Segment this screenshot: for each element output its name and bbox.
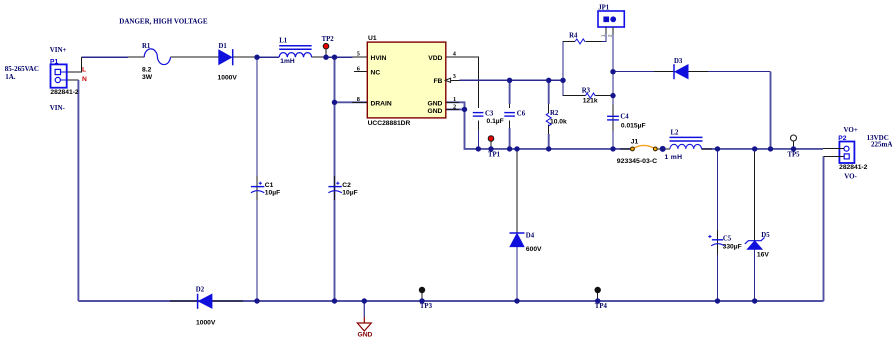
jumper J1 (631, 145, 658, 150)
svg-text:P2: P2 (838, 135, 846, 142)
wire P1 L pin corner (67, 57, 82, 72)
wire R3 left lead (563, 80, 586, 95)
capacitor C2 (328, 176, 341, 200)
IC U1 UCC28881DR body (367, 42, 446, 118)
svg-text:C2: C2 (342, 182, 351, 189)
wire top rail P1 to R1 (81, 56, 128, 58)
svg-text:C4: C4 (620, 114, 629, 121)
svg-text:GND: GND (428, 101, 443, 108)
svg-text:8: 8 (357, 96, 360, 103)
capacitor C3 (472, 108, 485, 121)
svg-text:2: 2 (453, 103, 456, 110)
svg-text:85-265VAC: 85-265VAC (5, 65, 39, 73)
wire L2 to P2 output rail (702, 148, 824, 150)
connector P2 (823, 142, 854, 164)
junction GND pins (462, 107, 467, 112)
svg-text:GND: GND (428, 108, 443, 115)
svg-text:225mA: 225mA (871, 140, 892, 148)
wire D1 to L1 (233, 56, 257, 58)
svg-text:VDD: VDD (428, 55, 442, 62)
wire U1 DRAIN pin 8 (335, 101, 368, 103)
wire R2 top lead (548, 80, 550, 104)
wire D2 left black stub (170, 300, 198, 302)
svg-text:D3: D3 (674, 58, 683, 65)
wire D3 anode from JP1 node (613, 71, 674, 73)
junction mid rail TP5 (791, 146, 796, 151)
pin FB arrow (445, 78, 450, 82)
svg-text:1000V: 1000V (218, 75, 238, 82)
diode D3 (674, 64, 688, 79)
wire FB rail up to R4 left lead (563, 41, 575, 80)
junction top rail C1 (254, 55, 259, 60)
svg-text:VIN-: VIN- (50, 104, 66, 112)
svg-text:D1: D1 (219, 43, 228, 50)
wire D3 cathode to output corner (688, 71, 771, 73)
svg-text:J1: J1 (631, 138, 639, 145)
svg-text:P1: P1 (50, 58, 58, 65)
wire R3 right lead (595, 95, 613, 97)
wire R1 left lead (128, 56, 144, 58)
junction bottom rail GND (362, 298, 367, 303)
svg-text:FB: FB (433, 78, 442, 85)
junction FB R2 (546, 78, 551, 83)
wire C4 lead black (612, 104, 614, 131)
svg-text:D2: D2 (196, 287, 205, 294)
wire U1 GND pin 1 (446, 102, 465, 109)
svg-text:1mH: 1mH (280, 58, 295, 65)
test point TP1 (488, 136, 494, 142)
junction TP2 (323, 55, 328, 60)
wire C4 bottom to mid rail (612, 131, 614, 149)
svg-text:330µF: 330µF (723, 244, 742, 251)
resistor R1 (144, 49, 170, 65)
wire N vertical to bottom rail (77, 80, 79, 301)
svg-text:C5: C5 (723, 235, 732, 242)
junction bottom rail TP3 (419, 298, 424, 303)
wire L2 right black stub (702, 148, 713, 150)
junction mid rail C5 (715, 146, 720, 151)
svg-text:6: 6 (357, 65, 360, 72)
wire DRAIN black stub (352, 101, 367, 103)
wire TP4 stem (597, 291, 599, 302)
svg-text:8.2: 8.2 (142, 66, 152, 73)
svg-text:D4: D4 (526, 232, 535, 239)
svg-text:10.0k: 10.0k (550, 118, 567, 125)
svg-text:1: 1 (453, 96, 456, 103)
diode D1 (219, 49, 233, 65)
test point TP3 (419, 287, 425, 293)
junction mid rail J1 L2 (660, 146, 666, 152)
svg-text:L1: L1 (279, 38, 288, 45)
resistor R2 (546, 113, 551, 126)
wire D4 branch vertical bottom (516, 247, 518, 301)
svg-text:C3: C3 (485, 110, 494, 117)
junction mid rail C6 (507, 146, 512, 151)
svg-text:3W: 3W (142, 74, 153, 81)
svg-text:N: N (82, 76, 87, 83)
svg-text:282841-2: 282841-2 (50, 89, 79, 96)
svg-text:VO-: VO- (844, 173, 857, 181)
wire R2 bottom lead black (548, 124, 550, 134)
svg-text:U1: U1 (368, 35, 377, 42)
ground (357, 323, 371, 331)
wire D3 left black stub (654, 71, 674, 73)
wire L2 left black stub (663, 148, 671, 150)
test point TP5 (791, 135, 797, 141)
wire GND2 black stub (446, 108, 459, 110)
svg-text:DRAIN: DRAIN (371, 101, 392, 108)
wire C6 vertical bottom (509, 128, 511, 149)
wire R4 right lead to JP1 pin 1 stem (586, 27, 606, 41)
svg-text:C1: C1 (265, 182, 274, 189)
svg-text:1 mH: 1 mH (665, 154, 683, 161)
capacitor C6 (504, 108, 517, 121)
capacitor C4 (607, 116, 619, 120)
svg-text:DANGER, HIGH VOLTAGE: DANGER, HIGH VOLTAGE (119, 17, 208, 25)
junction bottom rail D5 (752, 298, 757, 303)
junction DRAIN (332, 100, 337, 105)
junction FB R4 riser (560, 78, 565, 83)
svg-text:TP5: TP5 (788, 152, 801, 159)
wire GND stem maroon (363, 317, 365, 323)
diode D4 (510, 233, 525, 247)
wire U1 NC stub pin 6 (354, 71, 367, 73)
wire TP2 junction to U1 HVIN pin 5 (326, 56, 353, 58)
inductor L2 (670, 137, 703, 149)
inductor L1 (279, 46, 311, 57)
svg-text:NC: NC (371, 70, 381, 77)
svg-text:10µF: 10µF (265, 189, 280, 196)
resistor R4 (575, 39, 585, 44)
wire TP1 stem (490, 141, 492, 149)
junction mid rail TP1 (488, 146, 493, 151)
wire P2 VO- return (823, 156, 825, 301)
svg-text:R4: R4 (569, 32, 578, 39)
svg-text:16V: 16V (757, 251, 769, 258)
junction bottom rail C1 (254, 298, 259, 303)
wire C1 vertical (256, 57, 258, 301)
wire C6 vertical top (509, 80, 511, 104)
svg-text:1A.: 1A. (5, 73, 16, 81)
junction mid rail C4 (610, 146, 615, 151)
wire C6 lead black (509, 104, 511, 128)
junction mid rail D3 (768, 146, 773, 151)
svg-text:D5: D5 (761, 232, 770, 239)
svg-text:VIN+: VIN+ (50, 46, 67, 54)
wire J1 right terminal to L2 (657, 148, 670, 150)
junction top rail C2 branch (332, 55, 337, 60)
wire TP3 stem (421, 291, 423, 302)
wire R4 leads black (563, 40, 575, 42)
wire R2 top lead black (548, 104, 550, 113)
junction mid rail D5 (752, 146, 757, 151)
svg-text:TP4: TP4 (595, 303, 608, 310)
svg-text:10µF: 10µF (342, 189, 357, 196)
wire L1 to TP2 junction (312, 56, 326, 58)
svg-text:121k: 121k (583, 98, 598, 105)
svg-text:VO+: VO+ (844, 126, 858, 134)
junction mid rail D4 (514, 146, 519, 151)
svg-text:3: 3 (453, 73, 456, 80)
wire R3 left black lead (563, 95, 586, 97)
svg-text:GND: GND (358, 332, 373, 339)
wire R2 bottom lead (548, 134, 550, 149)
wire TP2 stem (325, 49, 327, 57)
wire D2 right black stub (211, 300, 243, 302)
svg-text:0.015µF: 0.015µF (621, 123, 646, 130)
svg-text:R3: R3 (582, 88, 591, 95)
jumper JP1 body (598, 11, 624, 34)
svg-text:L: L (82, 67, 86, 74)
wire HVIN black stub (353, 56, 368, 58)
capacitor C5 (708, 230, 724, 254)
zener diode D5 (745, 237, 765, 249)
junction bottom rail C5 (715, 298, 720, 303)
svg-text:0.1µF: 0.1µF (487, 118, 504, 125)
junction mid rail R2 (546, 146, 551, 151)
junction FB C6 (507, 78, 512, 83)
junction D3 node (610, 69, 615, 74)
wire D3 output vertical (770, 72, 772, 149)
junction bottom rail D4 (514, 298, 519, 303)
svg-text:923345-03-C: 923345-03-C (617, 158, 657, 165)
svg-text:TP1: TP1 (488, 152, 501, 159)
wire JP1 pin 2 stem down to C4 (612, 27, 614, 104)
junction bottom rail TP4 (595, 298, 600, 303)
wire C3 lead black (477, 100, 479, 130)
junction R3 C4 (610, 93, 615, 98)
wire R4 right black lead (586, 40, 603, 42)
connector P1 (51, 64, 67, 87)
svg-text:C6: C6 (517, 110, 526, 117)
svg-text:600V: 600V (526, 246, 542, 253)
wire bottom rail (78, 300, 823, 302)
svg-text:TP3: TP3 (420, 303, 433, 310)
svg-text:L2: L2 (671, 130, 680, 137)
junction bottom rail C2 (332, 298, 337, 303)
svg-text:5: 5 (357, 51, 360, 58)
resistor R3 (586, 93, 596, 98)
wire dot to L1 (257, 56, 279, 58)
wire GND1 black stub (446, 101, 459, 103)
test point TP4 (595, 287, 601, 293)
wire U1 FB pin 3 black stub (446, 79, 460, 81)
wire C2 TP2 branch vertical (334, 57, 336, 301)
wire U1 GND pin 2 to mid rail (446, 109, 633, 148)
wire U1 VDD pin 4 to C3 (446, 57, 479, 100)
diode D2 (198, 294, 212, 309)
svg-text:R1: R1 (142, 43, 151, 50)
wire TP5 stem (793, 141, 795, 149)
wire P1 N pin down to bottom rail (67, 79, 79, 81)
wire GND stem (363, 301, 365, 317)
wire D5 vertical bottom (754, 249, 756, 301)
wire D4 branch vertical top (516, 149, 518, 233)
wire C3 bottom to mid rail (477, 130, 479, 149)
svg-text:HVIN: HVIN (371, 55, 387, 62)
capacitor C1 (251, 176, 264, 200)
svg-text:282841-2: 282841-2 (839, 164, 868, 171)
svg-text:UCC28881DR: UCC28881DR (368, 120, 411, 127)
wire J1 left black lead (620, 148, 631, 150)
wire R1 to D1 (171, 56, 219, 58)
svg-text:R2: R2 (550, 110, 559, 117)
wire D3 right black stub (688, 71, 709, 73)
wire D5 vertical top (754, 149, 756, 241)
svg-text:TP2: TP2 (322, 36, 335, 43)
test point TP2 (323, 43, 329, 49)
junction mid rail C3 (476, 146, 481, 151)
svg-text:JP1: JP1 (598, 4, 610, 11)
svg-text:1000V: 1000V (196, 320, 216, 327)
wire U1 FB pin 3 rail (460, 79, 563, 81)
wire C5 vertical (717, 149, 719, 301)
